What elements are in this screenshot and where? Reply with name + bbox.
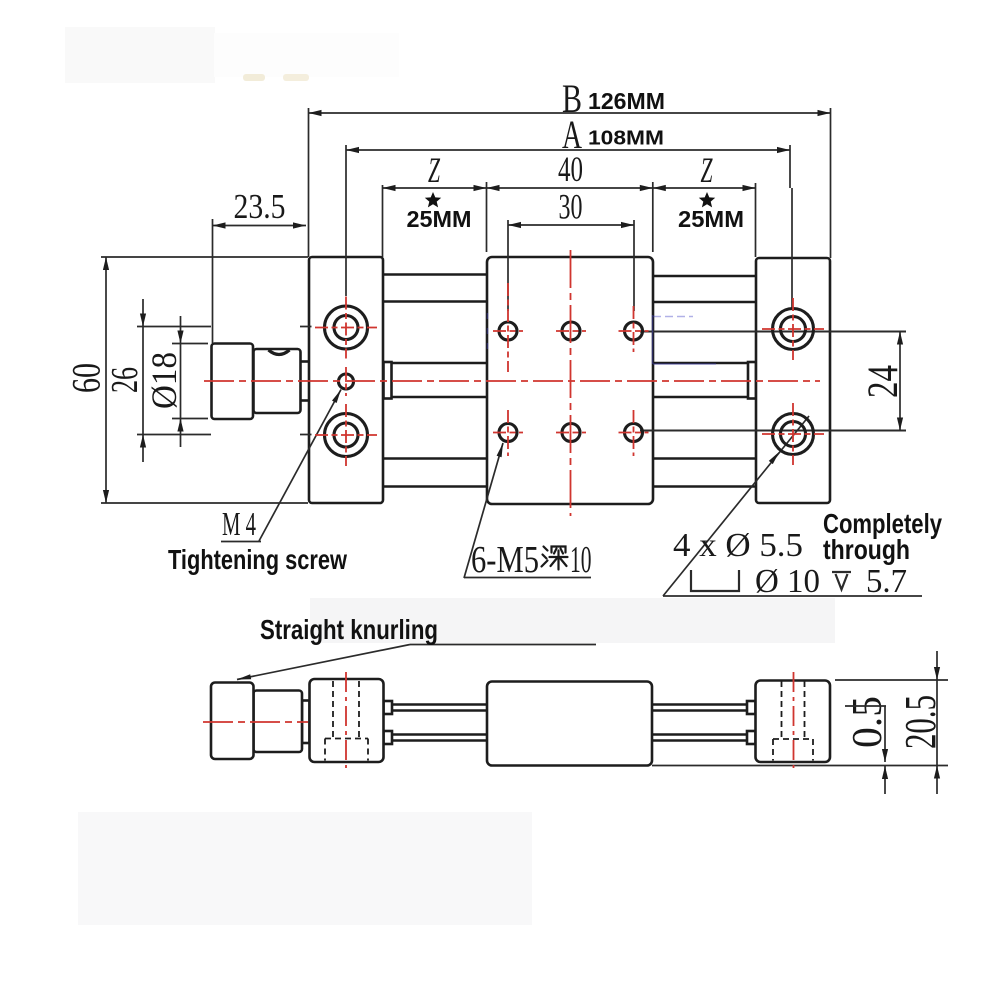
svg-text:30: 30 <box>559 187 583 227</box>
svg-text:Straight knurling: Straight knurling <box>260 614 438 645</box>
svg-text:25MM: 25MM <box>407 206 472 232</box>
svg-text:Ø 10: Ø 10 <box>755 563 820 600</box>
svg-text:Tightening screw: Tightening screw <box>168 544 347 575</box>
svg-text:5.7: 5.7 <box>866 563 907 600</box>
svg-text:Z: Z <box>701 150 714 190</box>
svg-text:60: 60 <box>64 363 109 393</box>
svg-text:4 x Ø 5.5: 4 x Ø 5.5 <box>673 527 803 564</box>
svg-text:108MM: 108MM <box>588 128 664 150</box>
svg-text:40: 40 <box>558 149 583 189</box>
svg-text:6-M5: 6-M5 <box>471 539 539 581</box>
svg-text:23.5: 23.5 <box>234 187 286 226</box>
svg-text:26: 26 <box>104 367 146 393</box>
svg-text:0.5: 0.5 <box>845 696 891 748</box>
svg-text:10: 10 <box>570 539 592 581</box>
svg-text:Z: Z <box>428 150 441 190</box>
svg-text:through: through <box>823 534 910 565</box>
svg-text:M 4: M 4 <box>222 506 256 543</box>
svg-text:126MM: 126MM <box>588 88 665 114</box>
svg-text:Ø18: Ø18 <box>144 352 184 409</box>
svg-text:24: 24 <box>860 365 907 398</box>
svg-text:25MM: 25MM <box>678 206 744 232</box>
